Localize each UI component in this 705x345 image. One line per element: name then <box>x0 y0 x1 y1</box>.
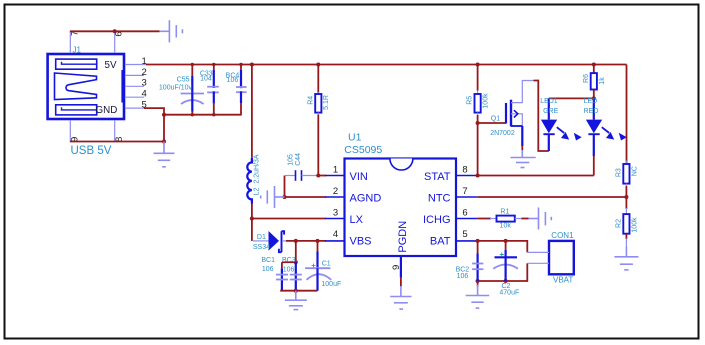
svg-text:GRE: GRE <box>543 108 559 115</box>
wire C44 left down to AGND <box>284 176 286 198</box>
pin 7 of J1 (shield, top left) <box>69 31 80 53</box>
junction BC3 top <box>294 239 298 243</box>
junction gate <box>476 121 480 125</box>
svg-text:106: 106 <box>283 266 295 273</box>
svg-text:C44: C44 <box>295 153 302 166</box>
wire caps bottom rail <box>164 114 242 116</box>
svg-text:VBAT: VBAT <box>553 276 573 285</box>
wire STAT net <box>478 175 594 177</box>
svg-text:470uF: 470uF <box>499 290 519 297</box>
label C33 value <box>200 70 213 82</box>
wire Q1 drain to LED1 cathode <box>534 81 549 152</box>
label C1 value <box>321 260 341 288</box>
wire L2 bottom to LX and D1 <box>251 204 253 241</box>
label R5 value <box>467 93 490 109</box>
svg-text:Q1: Q1 <box>491 115 500 122</box>
resistor R2 <box>623 197 629 247</box>
label LED RED value <box>584 98 599 115</box>
label C44 value <box>288 153 303 166</box>
pin 6 of J1 (shield, top right) <box>114 31 125 53</box>
diode D1 SS34 <box>253 231 287 252</box>
junction GND node <box>162 113 166 144</box>
wire BAT net <box>478 241 528 253</box>
svg-text:BC1: BC1 <box>261 257 275 264</box>
junction AGND <box>283 195 287 199</box>
svg-text:BAT: BAT <box>430 235 451 247</box>
ground bottom-left (pointing down) <box>285 291 307 310</box>
label C2 value <box>499 283 519 296</box>
label R1 value <box>500 209 512 230</box>
capacitor C33 <box>207 65 219 115</box>
svg-text:R5: R5 <box>467 96 474 105</box>
pin 6 ICHG of U1 <box>456 208 478 219</box>
svg-text:4: 4 <box>142 89 147 100</box>
transistor Q1 2N7002 <box>506 81 534 147</box>
svg-text:106: 106 <box>457 273 469 280</box>
pin 9 of J1 (shield, bottom left) <box>70 120 81 142</box>
pin 8 STAT of U1 <box>456 165 478 176</box>
junction R5 top <box>476 63 480 67</box>
svg-text:2: 2 <box>142 67 147 78</box>
wire AGND net <box>285 196 327 198</box>
ground Q1 source (pointing down) <box>511 150 536 168</box>
junction NTC-R2 <box>624 195 628 199</box>
capacitor BC3 <box>290 262 302 291</box>
svg-text:8: 8 <box>462 165 467 176</box>
svg-text:1: 1 <box>333 165 338 176</box>
connector J1 USB receptacle body <box>48 54 124 119</box>
wire +5V rail <box>146 64 627 66</box>
junction LX <box>250 217 254 221</box>
wire Q1 gate <box>478 122 506 124</box>
svg-text:R1: R1 <box>500 209 509 216</box>
junction R4 bottom <box>316 174 320 178</box>
svg-text:SS34: SS34 <box>253 244 270 251</box>
label BC2 value <box>456 267 470 280</box>
pin 4 of J1 <box>125 89 147 100</box>
junction BC4 top <box>239 63 242 66</box>
resistor R6 <box>591 65 597 99</box>
capacitor BC2 <box>472 241 483 282</box>
label BC4 value <box>226 73 240 85</box>
resistor R3 <box>623 161 629 198</box>
svg-text:R3: R3 <box>616 168 623 177</box>
svg-text:LED1: LED1 <box>540 98 558 105</box>
svg-text:106: 106 <box>227 77 239 84</box>
label BC3 value <box>282 257 296 273</box>
junction C1 top <box>316 239 320 243</box>
svg-text:VBS: VBS <box>350 235 372 247</box>
junction C2 bottom <box>476 239 508 283</box>
pin 1 of J1 <box>125 56 147 67</box>
wire LED RED cathode to STAT net <box>593 156 595 176</box>
junction C55 top <box>191 63 194 117</box>
capacitor BC4 <box>236 65 247 115</box>
svg-text:NC: NC <box>632 166 639 176</box>
LED LED1 GRE <box>541 98 582 151</box>
junction R6 top <box>592 63 596 67</box>
svg-text:C55: C55 <box>177 77 190 84</box>
wire LX net <box>252 218 326 220</box>
svg-text:L2: L2 <box>253 188 260 196</box>
pin 5 BAT of U1 <box>456 229 478 241</box>
capacitor C1 <box>305 241 331 291</box>
resistor R5 <box>475 91 481 117</box>
junction R6 bottom <box>592 96 596 100</box>
pin 8 of J1 (shield, bottom right) <box>114 120 125 142</box>
capacitor BC1 <box>276 262 288 291</box>
junction C33 top <box>212 63 215 117</box>
capacitor C44 <box>285 170 318 181</box>
junction shield pin 6 <box>113 29 117 33</box>
svg-text:100uF/10v: 100uF/10v <box>159 85 193 92</box>
svg-text:RED: RED <box>584 108 599 115</box>
svg-text:9: 9 <box>391 265 402 270</box>
ground R1 (rotated right) <box>529 208 552 230</box>
junction L2 top <box>250 63 254 67</box>
LED LED RED <box>586 98 627 156</box>
svg-text:AGND: AGND <box>350 192 382 204</box>
wire BC3 top drop <box>295 241 297 262</box>
label BC1 value <box>261 257 275 273</box>
wire Q1 source to ground <box>521 146 523 151</box>
svg-text:GND: GND <box>96 105 118 116</box>
svg-text:USB 5V: USB 5V <box>71 145 112 157</box>
svg-text:5V: 5V <box>105 60 117 71</box>
resistor R4 <box>315 65 321 176</box>
junction BAT <box>476 239 480 243</box>
svg-text:7: 7 <box>462 186 467 197</box>
label Q1 designator <box>490 115 515 137</box>
svg-text:ICHG: ICHG <box>423 214 451 226</box>
svg-text:3: 3 <box>333 208 338 219</box>
inductor L2 <box>247 158 252 204</box>
wire BC2 to ground <box>477 281 479 287</box>
svg-text:D1: D1 <box>257 234 266 241</box>
wire R5 bottom to STAT <box>477 115 479 176</box>
svg-text:LED: LED <box>584 98 598 105</box>
wire pin9 to ground <box>400 278 402 287</box>
wire CON1 lower pin to bottom rail <box>478 263 528 281</box>
wire +5V rail right drop to R3 <box>626 65 628 165</box>
wire VIN net <box>318 175 326 177</box>
label D1 value <box>253 234 270 251</box>
wire USB shield top to ground <box>70 30 160 32</box>
svg-text:1k: 1k <box>599 77 606 85</box>
svg-text:6: 6 <box>462 208 467 219</box>
capacitor C55 <box>181 65 205 115</box>
svg-text:NTC: NTC <box>428 192 451 204</box>
wire VBS / D1 cathode net <box>286 240 326 242</box>
svg-text:100k: 100k <box>483 93 490 109</box>
junction BC1 jumper <box>294 260 298 264</box>
pin 3 of J1 <box>125 78 147 89</box>
junction STAT <box>476 174 480 178</box>
wire BC1 jumper <box>282 261 296 263</box>
wire bottom-left rail <box>280 290 317 292</box>
ground BC2 (pointing down) <box>466 285 490 309</box>
pin 9 PGDN of U1 <box>391 256 402 278</box>
svg-text:100uF: 100uF <box>321 281 341 288</box>
svg-text:LX: LX <box>350 214 364 226</box>
wire USB pin5 GND down <box>144 108 164 141</box>
pin 2 AGND of U1 <box>325 186 345 197</box>
svg-text:VIN: VIN <box>350 171 368 183</box>
svg-text:5: 5 <box>462 229 467 240</box>
IC U1 CS5095 <box>345 159 457 257</box>
pin 5 of J1 <box>125 100 147 111</box>
pin 4 VBS of U1 <box>325 229 345 241</box>
pin 2 of J1 <box>125 67 147 78</box>
svg-text:4: 4 <box>333 229 338 240</box>
label R4 value <box>307 95 330 110</box>
svg-text:5.1R: 5.1R <box>323 95 330 110</box>
label L2 value <box>253 154 260 195</box>
label R6 value <box>583 74 606 85</box>
svg-text:U1: U1 <box>348 132 362 144</box>
ground AGND (rotated left) <box>261 186 285 208</box>
ground pin9 (pointing down) <box>390 286 411 309</box>
label R3 value <box>616 166 639 177</box>
wire left rail R5/STAT column <box>477 65 479 91</box>
capacitor C2 <box>493 241 518 281</box>
ground below USB (pointing down) <box>154 142 175 167</box>
svg-text:R2: R2 <box>616 219 623 228</box>
pin 1 VIN of U1 <box>325 165 345 176</box>
svg-text:2.2uH/3A: 2.2uH/3A <box>253 154 260 184</box>
svg-text:PGDN: PGDN <box>397 221 409 253</box>
pin 3 LX of U1 <box>325 208 345 219</box>
connector CON1 <box>527 241 574 274</box>
svg-text:C1: C1 <box>322 260 331 267</box>
svg-text:R4: R4 <box>307 96 314 105</box>
svg-text:BC3: BC3 <box>282 257 296 264</box>
wire NTC net <box>478 196 627 198</box>
wire LED anode rail <box>549 97 594 99</box>
svg-text:100k: 100k <box>632 217 639 233</box>
label LED1 value <box>540 98 558 115</box>
junction R4 top <box>316 63 320 67</box>
svg-text:CS5095: CS5095 <box>344 144 382 156</box>
label U1 designator <box>344 132 382 156</box>
wire USB shield bottom to ground <box>70 141 164 143</box>
svg-text:R6: R6 <box>583 74 590 83</box>
svg-text:J1: J1 <box>73 46 82 55</box>
svg-text:106: 106 <box>262 266 274 273</box>
resistor R1 <box>478 216 529 222</box>
wire 5V rail to L2 <box>251 65 253 158</box>
junction bottom-left ground <box>294 289 298 293</box>
ground R2 (pointing down) <box>614 247 638 270</box>
svg-text:2N7002: 2N7002 <box>490 130 515 137</box>
svg-text:2: 2 <box>333 186 338 197</box>
label R2 value <box>616 217 639 233</box>
svg-text:STAT: STAT <box>424 171 451 183</box>
ground top-left (rotated right) <box>160 20 183 42</box>
svg-text:10k: 10k <box>500 223 512 230</box>
svg-text:3: 3 <box>142 78 147 89</box>
pin 7 NTC of U1 <box>456 186 478 197</box>
label C55 value <box>159 77 193 92</box>
svg-text:CON1: CON1 <box>551 231 574 240</box>
svg-text:105: 105 <box>288 154 295 166</box>
svg-text:104: 104 <box>200 76 212 83</box>
